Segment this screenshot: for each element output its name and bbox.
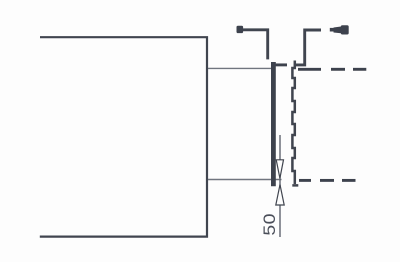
svg-text:50: 50 xyxy=(260,213,278,235)
